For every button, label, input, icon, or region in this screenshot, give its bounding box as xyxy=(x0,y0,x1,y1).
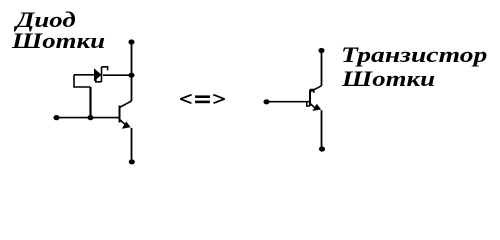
wire: diode anode lead xyxy=(74,74,94,76)
Schottky diode D1: anode triangle xyxy=(94,68,102,81)
wire: base lead (right circuit) xyxy=(268,101,310,103)
wire: vertical drop to base junction xyxy=(89,87,91,118)
equivalence symbol: right angle bracket > xyxy=(213,95,224,104)
Schottky diode D1: cathode top hook xyxy=(102,67,108,71)
node: collector terminal (left circuit, top) xyxy=(128,39,134,44)
node: emitter terminal (right circuit, bottom) xyxy=(319,146,325,151)
transistor Q1: collector stroke xyxy=(120,101,132,108)
wire: base lead xyxy=(58,117,120,119)
Schottky diode D1: cathode bottom hook xyxy=(96,78,102,82)
wire: emitter down to emitter terminal (right circuit) xyxy=(321,110,323,148)
transistor Q2: emitter arrowhead xyxy=(312,104,321,111)
node: base junction xyxy=(87,115,93,120)
node: collector terminal (right circuit, top) xyxy=(318,48,324,53)
transistor Q1: emitter stroke xyxy=(120,119,126,124)
label: Диод Шотки (line 1) xyxy=(16,7,76,33)
node: base terminal (left circuit) xyxy=(53,115,59,120)
node: emitter terminal (left circuit, bottom) xyxy=(129,159,135,164)
transistor Q1: base bar xyxy=(119,106,121,123)
label: Диод Шотки (line 2) xyxy=(12,28,105,54)
transistor Q2: base bar top hook xyxy=(310,90,314,93)
wire: diode cathode to collector junction xyxy=(103,74,132,76)
label: Транзистор Шотки (line 2) xyxy=(342,66,435,92)
wire: collector lead (right circuit) xyxy=(321,51,323,86)
label: Транзистор Шотки (line 1) xyxy=(341,42,487,68)
transistor Q2: collector stroke xyxy=(310,86,322,92)
node: base terminal (right circuit) xyxy=(263,99,269,104)
transistor Q2: emitter stroke xyxy=(310,103,316,108)
transistor Q2: base bar bottom hook xyxy=(307,103,310,106)
wire: collector terminal down to diode junction and collector elbow xyxy=(131,42,133,101)
node: diode cathode / collector junction xyxy=(128,73,134,78)
wire: zigzag from anode down-left xyxy=(74,75,91,87)
wire: emitter down to emitter terminal xyxy=(131,128,133,161)
Schottky diode D1: cathode bar xyxy=(101,67,103,82)
transistor Q2: Schottky base bar xyxy=(309,90,311,107)
equivalence symbol: double bar = xyxy=(195,95,210,98)
equivalence symbol: left angle bracket < xyxy=(180,95,191,104)
transistor Q1: emitter arrowhead xyxy=(122,122,131,129)
